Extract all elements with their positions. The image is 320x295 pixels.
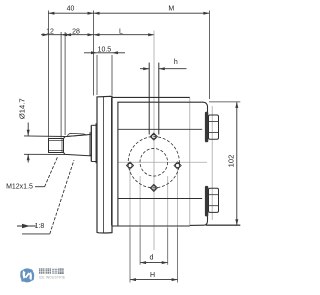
svg-text:102: 102 bbox=[227, 155, 236, 168]
svg-text:h: h bbox=[174, 59, 178, 66]
svg-text:12: 12 bbox=[46, 28, 54, 35]
svg-text:M12x1.5: M12x1.5 bbox=[6, 183, 33, 190]
svg-text:40: 40 bbox=[67, 6, 75, 13]
svg-text:1:8: 1:8 bbox=[35, 223, 45, 230]
svg-text:IZE INDUSTRIE: IZE INDUSTRIE bbox=[39, 275, 66, 279]
svg-text:28: 28 bbox=[72, 28, 80, 35]
svg-text:H: H bbox=[150, 272, 155, 279]
svg-text:10.5: 10.5 bbox=[98, 47, 112, 54]
svg-text:M: M bbox=[168, 6, 174, 13]
svg-text:d: d bbox=[150, 255, 154, 262]
svg-text:L: L bbox=[119, 28, 123, 35]
svg-text:Ø14.7: Ø14.7 bbox=[17, 98, 26, 119]
